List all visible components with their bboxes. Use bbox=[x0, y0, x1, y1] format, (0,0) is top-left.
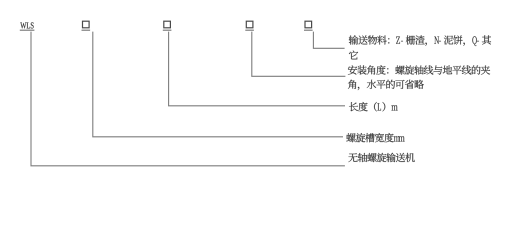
designation box 1 bbox=[83, 21, 90, 28]
underline under box 4 bbox=[304, 30, 313, 31]
leader line to material label bbox=[313, 32, 344, 49]
label: shaftless screw conveyor bbox=[348, 153, 414, 162]
leader line to spiral trough width label bbox=[93, 32, 343, 137]
designation box 4 bbox=[305, 21, 312, 28]
label: spiral trough width mm bbox=[346, 133, 404, 142]
WLS model code text bbox=[20, 22, 33, 28]
underline under WLS bbox=[20, 30, 35, 31]
designation box 3 bbox=[246, 21, 253, 28]
underline under box 1 bbox=[82, 30, 91, 31]
underline under box 3 bbox=[245, 30, 254, 31]
leader line to length label bbox=[169, 32, 345, 106]
label: install angle line1 bbox=[348, 65, 490, 74]
label: install angle line2 bbox=[348, 80, 424, 90]
leader line to install angle label bbox=[252, 32, 346, 77]
underline under box 2 bbox=[163, 30, 172, 31]
label: conveyed material line2 bbox=[349, 51, 358, 60]
leader line to machine name label bbox=[31, 32, 345, 166]
label: length (L) m bbox=[349, 102, 398, 111]
designation box 2 bbox=[164, 21, 171, 28]
label: conveyed material line1 bbox=[349, 35, 491, 46]
